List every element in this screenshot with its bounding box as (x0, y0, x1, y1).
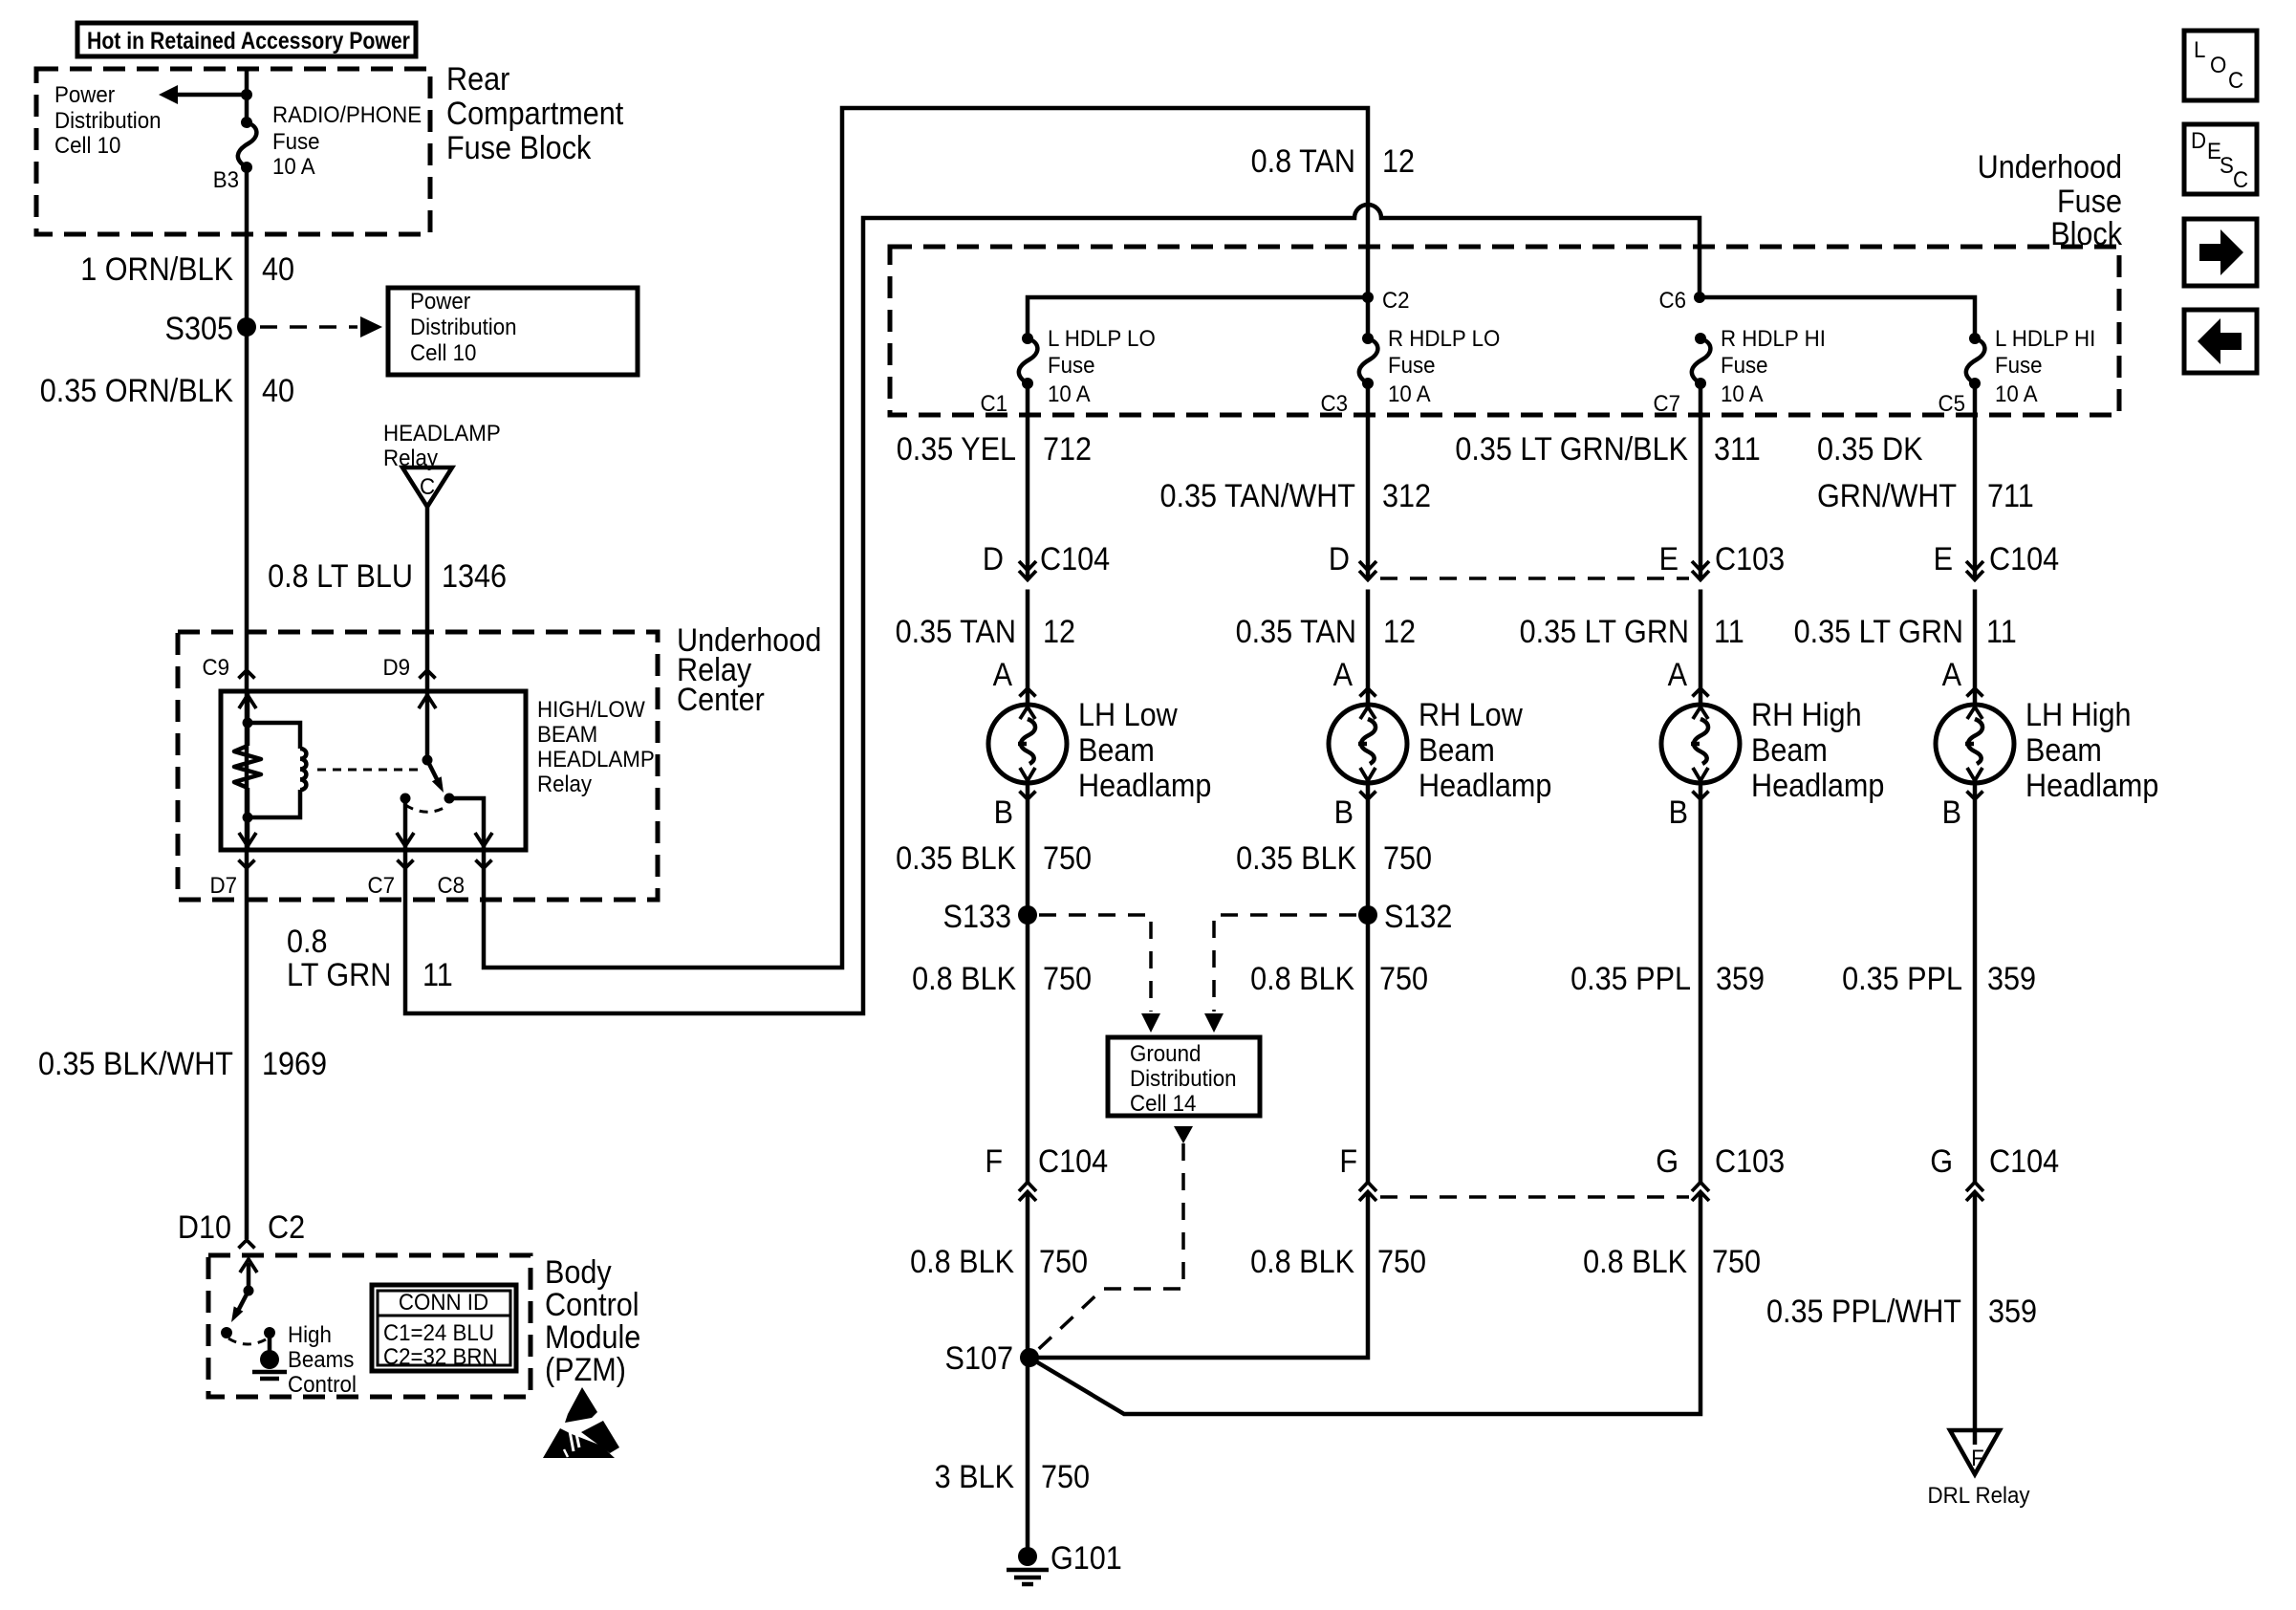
svg-text:G101: G101 (1051, 1540, 1122, 1577)
svg-text:Cell 10: Cell 10 (410, 339, 476, 365)
svg-text:Distribution: Distribution (54, 107, 162, 133)
svg-text:A: A (1333, 657, 1354, 693)
svg-text:C2: C2 (1382, 287, 1410, 313)
label RADIO/PHONE Fuse 10 A (272, 101, 422, 179)
svg-text:40: 40 (262, 373, 294, 409)
svg-text:10 A: 10 A (1721, 381, 1764, 406)
pin C8 (437, 860, 491, 899)
svg-text:Fuse: Fuse (272, 128, 320, 154)
svg-text:B3: B3 (213, 166, 239, 192)
label 0.8 LT BLU 1346 (268, 558, 507, 595)
svg-text:F: F (1971, 1445, 1984, 1470)
label 0.35 BLK/WHT 1969 (38, 1046, 327, 1082)
svg-text:L: L (2194, 36, 2206, 62)
svg-text:0.35 LT GRN/BLK: 0.35 LT GRN/BLK (1455, 431, 1688, 468)
svg-text:C: C (2233, 166, 2248, 192)
svg-text:1969: 1969 (262, 1046, 327, 1082)
svg-text:359: 359 (1987, 961, 2036, 997)
svg-text:L HDLP HI: L HDLP HI (1995, 325, 2095, 351)
svg-text:C9: C9 (202, 654, 229, 680)
svg-text:LT GRN: LT GRN (287, 957, 391, 993)
svg-text:A: A (1668, 657, 1688, 693)
relay box HIGH/LOW BEAM HEADLAMP Relay (221, 691, 526, 850)
svg-text:712: 712 (1043, 431, 1092, 468)
legend box arrow right (2184, 219, 2257, 286)
svg-text:0.35 LT GRN: 0.35 LT GRN (1520, 614, 1689, 650)
wire lamp RH high B down to G connector (1699, 783, 1703, 1183)
connector G C104 (col4) (1930, 1143, 2059, 1201)
wire C7 to underhood fuse block C6 (405, 205, 1700, 1013)
node C6 (1658, 287, 1705, 313)
svg-text:Distribution: Distribution (1130, 1065, 1237, 1091)
Ground Distribution Cell 14 box (1108, 1037, 1260, 1116)
relay NO contact wire to C8 (449, 798, 492, 850)
svg-text:0.35 YEL: 0.35 YEL (897, 431, 1016, 468)
svg-text:3 BLK: 3 BLK (935, 1459, 1015, 1495)
connector D10 / C2 (BCM) (178, 1209, 305, 1249)
svg-text:C7: C7 (1653, 390, 1680, 416)
svg-text:750: 750 (1383, 840, 1432, 877)
node S133 (943, 899, 1037, 935)
svg-text:0.8 LT BLU: 0.8 LT BLU (268, 558, 413, 595)
svg-text:L HDLP LO: L HDLP LO (1048, 325, 1156, 351)
svg-text:A: A (1942, 657, 1962, 693)
Underhood Fuse Block (dashed box) (890, 247, 2119, 415)
BCM internal ground (252, 1333, 287, 1379)
label Rear Compartment Fuse Block (446, 61, 623, 166)
off-page triangle C (headlamp relay feed) (402, 468, 452, 507)
svg-text:C104: C104 (1040, 541, 1110, 577)
wire DRL col4 down to triangle (1973, 1192, 1978, 1446)
label 0.8 BLK 750 (col3 lower) (1583, 1244, 1761, 1280)
label 0.35 LT GRN 11 (col3) (1520, 614, 1744, 650)
svg-text:0.35 LT GRN: 0.35 LT GRN (1794, 614, 1963, 650)
Underhood Relay Center (dashed box) (178, 632, 658, 900)
label Underhood Relay Center (677, 622, 821, 718)
dashed arrow S305 to Power Distribution (260, 316, 382, 337)
svg-text:Headlamp: Headlamp (1419, 768, 1551, 804)
svg-text:Headlamp: Headlamp (2025, 768, 2158, 804)
label Power Distribution Cell 10 (in fuse block) (54, 81, 162, 158)
svg-text:Control: Control (288, 1371, 357, 1397)
svg-text:C3: C3 (1320, 390, 1348, 416)
svg-text:E: E (1934, 541, 1953, 577)
svg-text:S133: S133 (943, 899, 1011, 935)
svg-text:Fuse: Fuse (2057, 184, 2122, 220)
svg-text:Power: Power (54, 81, 115, 107)
svg-text:1 ORN/BLK: 1 ORN/BLK (80, 251, 233, 288)
svg-text:750: 750 (1712, 1244, 1761, 1280)
svg-text:Fuse: Fuse (1721, 352, 1768, 378)
svg-text:0.35 TAN/WHT: 0.35 TAN/WHT (1159, 478, 1355, 514)
svg-text:HIGH/LOW: HIGH/LOW (537, 696, 645, 722)
wire lamp LH low B down to S107 (1026, 783, 1030, 1183)
svg-text:359: 359 (1988, 1294, 2037, 1330)
wire C2 to L HDLP LO fuse (1028, 297, 1368, 338)
svg-text:RH Low: RH Low (1419, 697, 1523, 733)
lamp RH High Beam Headlamp (1661, 697, 1884, 804)
label 0.35 TAN/WHT 312 (1159, 478, 1431, 514)
svg-text:DRL Relay: DRL Relay (1927, 1482, 2029, 1508)
pin D7 (209, 860, 254, 899)
svg-text:F: F (1339, 1143, 1357, 1180)
svg-text:10 A: 10 A (1995, 381, 2038, 406)
svg-text:12: 12 (1043, 614, 1075, 650)
label 0.8 LT GRN 11 (287, 924, 453, 993)
svg-text:G: G (1930, 1143, 1953, 1180)
svg-text:C104: C104 (1038, 1143, 1108, 1180)
svg-text:0.35 TAN: 0.35 TAN (896, 614, 1016, 650)
label 0.35 ORN/BLK 40 (40, 373, 294, 409)
svg-text:S305: S305 (165, 311, 233, 347)
svg-text:Headlamp: Headlamp (1078, 768, 1211, 804)
svg-text:0.35 TAN: 0.35 TAN (1236, 614, 1356, 650)
label 0.8 BLK 750 (col1) (912, 961, 1092, 997)
svg-text:RH High: RH High (1751, 697, 1862, 733)
label 0.35 BLK 750 (col1) (896, 840, 1092, 877)
svg-text:C104: C104 (1989, 541, 2059, 577)
svg-text:Center: Center (677, 682, 765, 718)
label 0.35 LT GRN 11 (col4) (1794, 614, 2017, 650)
pin A (col1) (993, 657, 1036, 697)
legend box arrow left (2184, 310, 2257, 373)
svg-text:A: A (993, 657, 1013, 693)
svg-text:11: 11 (422, 957, 453, 993)
BCM switch contacts (221, 1327, 275, 1344)
svg-text:Beam: Beam (1751, 732, 1828, 769)
dashed ground distribution to S107 (1029, 1126, 1193, 1358)
svg-text:0.8 BLK: 0.8 BLK (912, 961, 1016, 997)
svg-text:B: B (1334, 794, 1354, 831)
Rear Compartment Fuse Block (dashed box) (36, 69, 430, 234)
label High Beams Control (288, 1321, 357, 1397)
pin A (col3) (1668, 657, 1709, 697)
svg-text:12: 12 (1383, 614, 1416, 650)
svg-text:Compartment: Compartment (446, 96, 623, 132)
label 0.35 PPL/WHT 359 (col4 lower) (1766, 1294, 2037, 1330)
label 0.8 BLK 750 (col2) (1250, 961, 1428, 997)
svg-text:750: 750 (1043, 840, 1092, 877)
svg-text:750: 750 (1043, 961, 1092, 997)
svg-text:Beam: Beam (2025, 732, 2102, 769)
svg-text:S107: S107 (945, 1340, 1013, 1377)
label 3 BLK 750 (935, 1459, 1090, 1495)
label 0.35 DK GRN/WHT 711 (1817, 431, 2034, 514)
svg-text:C2=32 BRN: C2=32 BRN (383, 1343, 498, 1369)
label 1 ORN/BLK 40 (80, 251, 294, 288)
wire fuse C5 down to LH high lamp (1966, 385, 1983, 705)
connector E C103 (col3) (1659, 541, 1786, 577)
svg-text:HEADLAMP: HEADLAMP (383, 420, 501, 446)
svg-text:0.8 BLK: 0.8 BLK (1583, 1244, 1687, 1280)
fuse R HDLP LO 10 A (1320, 325, 1500, 416)
svg-text:BEAM: BEAM (537, 721, 597, 747)
svg-text:750: 750 (1379, 961, 1428, 997)
svg-text:Headlamp: Headlamp (1751, 768, 1884, 804)
label 0.35 PPL 359 (col3) (1570, 961, 1765, 997)
svg-text:0.35 BLK/WHT: 0.35 BLK/WHT (38, 1046, 233, 1082)
svg-text:S: S (2220, 152, 2234, 178)
svg-text:750: 750 (1041, 1459, 1090, 1495)
wire fuse C3 down to RH low lamp (1359, 385, 1376, 705)
pin C7 (367, 860, 413, 899)
svg-text:Beams: Beams (288, 1346, 354, 1372)
wire arrow to Power Distribution (159, 85, 252, 104)
svg-text:B: B (994, 794, 1013, 831)
svg-text:11: 11 (1986, 614, 2017, 650)
node S107 (945, 1340, 1039, 1377)
svg-text:311: 311 (1714, 431, 1761, 468)
relay coil leg wire (239, 691, 256, 746)
legend box DESC (2184, 124, 2257, 194)
svg-text:10 A: 10 A (272, 153, 315, 179)
svg-text:C: C (420, 473, 435, 499)
dashed S133 to ground distribution (1039, 915, 1160, 1033)
svg-text:0.8 BLK: 0.8 BLK (1250, 1244, 1354, 1280)
pin D9 (382, 654, 435, 680)
svg-text:B: B (1669, 794, 1688, 831)
wire triangle C to relay D9 (425, 507, 430, 691)
svg-text:0.8 BLK: 0.8 BLK (1250, 961, 1354, 997)
label 0.35 PPL 359 (col4) (1842, 961, 2036, 997)
lamp LH Low Beam Headlamp (988, 697, 1211, 804)
pin A (col4) (1942, 657, 1983, 697)
svg-text:S132: S132 (1384, 899, 1452, 935)
node C2 (1362, 287, 1410, 313)
node S305 (165, 311, 256, 347)
svg-text:D: D (2191, 127, 2206, 153)
svg-text:0.35 ORN/BLK: 0.35 ORN/BLK (40, 373, 234, 409)
label HIGH/LOW BEAM HEADLAMP Relay (537, 696, 655, 796)
label 0.8 BLK 750 (col2 lower) (1250, 1244, 1426, 1280)
Body Control Module (dashed box) (208, 1255, 531, 1397)
svg-text:C103: C103 (1715, 1143, 1785, 1180)
label 0.35 LT GRN/BLK 311 (1455, 431, 1760, 468)
BCM input arrow (240, 1259, 257, 1296)
svg-text:Fuse: Fuse (1048, 352, 1095, 378)
svg-text:711: 711 (1987, 478, 2034, 514)
resistor (relay) (234, 746, 261, 788)
label 0.35 TAN 12 (col2) (1236, 614, 1416, 650)
svg-text:Fuse: Fuse (1995, 352, 2043, 378)
wire S107 to G101 (1026, 1358, 1030, 1555)
svg-text:C1=24 BLU: C1=24 BLU (383, 1319, 494, 1345)
svg-text:CONN ID: CONN ID (399, 1289, 488, 1315)
svg-text:(PZM): (PZM) (545, 1352, 626, 1388)
svg-text:Beam: Beam (1078, 732, 1155, 769)
svg-text:Hot in Retained Accessory Powe: Hot in Retained Accessory Power (87, 27, 410, 54)
svg-text:Control: Control (545, 1287, 639, 1323)
wire S107 right up to F col2 (1029, 1192, 1368, 1359)
svg-text:D7: D7 (209, 872, 237, 898)
svg-text:Power: Power (410, 288, 470, 314)
Hot in Retained Accessory Power box (77, 23, 416, 56)
svg-text:359: 359 (1716, 961, 1765, 997)
connector F (col2) (1339, 1143, 1376, 1201)
svg-text:0.8: 0.8 (287, 924, 328, 960)
svg-text:312: 312 (1382, 478, 1431, 514)
svg-text:0.35 PPL: 0.35 PPL (1570, 961, 1691, 997)
label 0.8 BLK 750 (col1 lower) (910, 1244, 1088, 1280)
svg-text:R HDLP LO: R HDLP LO (1388, 325, 1500, 351)
dashed connector link D-E (1380, 577, 1689, 580)
wire B3 down to D10 (245, 167, 249, 1239)
pin A (col2) (1333, 657, 1376, 697)
label 0.35 TAN 12 (col1) (896, 614, 1075, 650)
Power Distribution Cell 10 box (388, 288, 638, 375)
svg-text:C: C (2228, 67, 2243, 93)
label 0.8 TAN 12 (1251, 143, 1415, 180)
wire C8 to underhood fuse block C2 (484, 108, 1368, 968)
node S132 (1358, 899, 1452, 935)
svg-text:1346: 1346 (442, 558, 507, 595)
connector E C104 (col4) (1934, 541, 2060, 577)
svg-text:Distribution: Distribution (410, 314, 517, 339)
svg-text:0.35 PPL: 0.35 PPL (1842, 961, 1962, 997)
label 0.35 BLK 750 (col2) (1236, 840, 1432, 877)
svg-text:C6: C6 (1658, 287, 1686, 313)
svg-text:C103: C103 (1715, 541, 1785, 577)
svg-text:RADIO/PHONE: RADIO/PHONE (272, 101, 422, 127)
relay switch common (419, 691, 436, 766)
svg-text:0.35 PPL/WHT: 0.35 PPL/WHT (1766, 1294, 1961, 1330)
svg-text:GRN/WHT: GRN/WHT (1817, 478, 1957, 514)
label 0.35 YEL 712 (897, 431, 1092, 468)
svg-text:LH High: LH High (2025, 697, 2131, 733)
svg-text:12: 12 (1382, 143, 1415, 180)
connector G C103 (col3) (1656, 1143, 1785, 1201)
pin B (col2) (1334, 792, 1376, 831)
svg-text:C8: C8 (437, 872, 465, 898)
svg-text:Fuse: Fuse (1388, 352, 1436, 378)
svg-text:C1: C1 (980, 390, 1007, 416)
svg-text:G: G (1656, 1143, 1679, 1180)
legend box LOC (2184, 31, 2257, 100)
DRL Relay triangle F (1927, 1430, 2029, 1508)
label HEADLAMP Relay (383, 420, 501, 470)
svg-text:LH Low: LH Low (1078, 697, 1178, 733)
fuse L HDLP HI 10 A (1938, 325, 2095, 416)
relay switch arm (427, 760, 444, 793)
CONN ID table (372, 1285, 516, 1371)
wire lamp LH high B down to DRL relay (1973, 783, 1978, 1183)
svg-text:11: 11 (1714, 614, 1744, 650)
wire feed into RADIO/PHONE fuse (245, 69, 249, 122)
connector F C104 (col1) (985, 1143, 1108, 1201)
svg-text:O: O (2210, 52, 2226, 77)
svg-text:10 A: 10 A (1388, 381, 1431, 406)
svg-text:0.35 DK: 0.35 DK (1817, 431, 1923, 468)
connector D C104 (col1) (983, 541, 1110, 577)
svg-text:0.35 BLK: 0.35 BLK (896, 840, 1016, 877)
svg-text:D10: D10 (178, 1209, 231, 1246)
svg-text:Underhood: Underhood (1978, 149, 2122, 185)
wire fuse C7 down to RH high lamp (1692, 385, 1709, 705)
svg-text:Ground: Ground (1130, 1040, 1201, 1066)
svg-text:750: 750 (1377, 1244, 1426, 1280)
pin B (col3) (1669, 792, 1709, 831)
relay NC contact wire to C7 (397, 798, 414, 850)
svg-text:10 A: 10 A (1048, 381, 1091, 406)
svg-text:Fuse Block: Fuse Block (446, 130, 592, 166)
svg-text:750: 750 (1039, 1244, 1088, 1280)
wire C6 to L HDLP HI fuse (1700, 297, 1975, 338)
pin B (col1) (994, 792, 1036, 831)
svg-text:0.35 BLK: 0.35 BLK (1236, 840, 1356, 877)
wire fuse C1 down to LH low lamp (1019, 385, 1036, 705)
dashed actuation link (317, 769, 418, 772)
svg-text:C5: C5 (1938, 390, 1965, 416)
lamp RH Low Beam Headlamp (1329, 697, 1551, 804)
svg-text:Cell 10: Cell 10 (54, 132, 120, 158)
svg-text:Beam: Beam (1419, 732, 1495, 769)
svg-text:F: F (985, 1143, 1003, 1180)
svg-text:B: B (1942, 794, 1961, 831)
svg-text:Module: Module (545, 1319, 640, 1356)
svg-text:0.8 TAN: 0.8 TAN (1251, 143, 1355, 180)
pin B (col4) (1942, 792, 1983, 831)
svg-text:R HDLP HI: R HDLP HI (1721, 325, 1826, 351)
svg-text:0.8 BLK: 0.8 BLK (910, 1244, 1014, 1280)
svg-text:D: D (1329, 541, 1350, 577)
svg-text:Block: Block (2050, 216, 2123, 252)
wire lamp RH low B down to S132/F (1366, 783, 1371, 1183)
label Body Control Module (PZM) (545, 1254, 640, 1388)
dashed connector link F-G (1380, 1195, 1689, 1199)
svg-text:HEADLAMP: HEADLAMP (537, 746, 655, 772)
fuse L HDLP LO 10 A (980, 325, 1155, 416)
svg-text:D9: D9 (382, 654, 410, 680)
fuse R HDLP HI 10 A (1653, 325, 1825, 416)
svg-text:40: 40 (262, 251, 294, 288)
fuse RADIO/PHONE 10 A (238, 117, 257, 173)
svg-text:Relay: Relay (537, 771, 592, 796)
relay contacts (401, 794, 455, 813)
svg-text:Cell 14: Cell 14 (1130, 1090, 1197, 1116)
pin C9 (202, 654, 254, 680)
wire F col1 down to S107 (1026, 1192, 1030, 1359)
svg-text:C7: C7 (367, 872, 395, 898)
dashed S132 to ground distribution (1204, 915, 1356, 1033)
wire S107 diagonal to G col3 (1029, 1192, 1700, 1415)
svg-text:Rear: Rear (446, 61, 510, 98)
BCM switch arm (231, 1291, 249, 1322)
svg-text:E: E (1659, 541, 1679, 577)
svg-text:High: High (288, 1321, 332, 1347)
svg-text:C104: C104 (1989, 1143, 2059, 1180)
ESD symbol (543, 1387, 619, 1458)
relay coil leg lower wire (239, 788, 256, 850)
lamp LH High Beam Headlamp (1936, 697, 2158, 804)
ground G101 (1007, 1540, 1122, 1584)
svg-text:Body: Body (545, 1254, 613, 1291)
svg-text:D: D (983, 541, 1004, 577)
svg-text:C2: C2 (268, 1209, 305, 1246)
label Underhood Fuse Block (1978, 149, 2123, 252)
coil (relay) (248, 723, 306, 817)
